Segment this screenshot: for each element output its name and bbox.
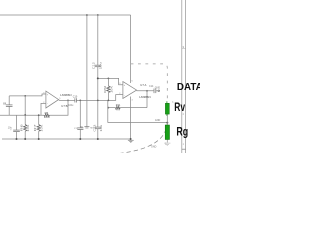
svg-text:220R: 220R [44, 116, 50, 119]
wire R8 to feedback riser [50, 100, 69, 115]
svg-text:R11: R11 [116, 103, 121, 107]
pad Rv green [165, 103, 169, 114]
wire top supply rail [0, 14, 131, 16]
microphone terminal bar on vertical A [84, 126, 89, 128]
node junction A on rail [86, 14, 88, 16]
svg-text:Rv: Rv [174, 101, 185, 114]
node dot R1 bottom-rail [24, 114, 26, 116]
connector tick pin 3 [182, 47, 186, 49]
connector board edge line 1 [181, 0, 183, 153]
svg-text:-: - [124, 94, 125, 97]
svg-text:R8: R8 [45, 111, 49, 115]
node dot output node U7B extension [108, 100, 110, 102]
svg-text:1: 1 [183, 143, 185, 146]
svg-text:U7 A: U7 A [140, 83, 146, 87]
node dot vertical B crossing [97, 100, 99, 102]
svg-text:MIC: MIC [90, 128, 94, 130]
node dot feedback at output [146, 90, 148, 92]
wire vertical B to plus network [98, 78, 123, 84]
resistor R8 gain [44, 114, 50, 117]
wire pad2 to ground [166, 140, 168, 143]
svg-text:GND: GND [155, 86, 161, 89]
node dot rail end junction [130, 138, 132, 140]
wire R9 bottom to minus input U7A [108, 95, 123, 101]
capacitor C14 plates [153, 89, 155, 94]
svg-text:DATA: DATA [177, 82, 200, 93]
svg-text:5: 5 [59, 98, 61, 100]
node dot R11 left tap [108, 107, 110, 109]
ground symbol below pad2 [164, 142, 170, 144]
ground rail [2, 138, 131, 140]
op-amp U7A triangle [123, 82, 137, 99]
svg-text:C10: C10 [73, 96, 78, 99]
svg-text:47K: 47K [116, 107, 121, 111]
op-amp U7B triangle [46, 91, 59, 108]
connector tick bottom [182, 148, 186, 150]
svg-text:10u: 10u [99, 124, 103, 132]
wire noninverting input rail U7B [9, 94, 46, 96]
wire dashed supply to connector [131, 64, 168, 101]
node dot at pad junction [166, 122, 168, 124]
svg-text:U7 B: U7 B [61, 104, 67, 108]
connector board edge line 2 [185, 0, 187, 153]
svg-text:GND: GND [155, 119, 161, 122]
resistor R9 vertical [107, 78, 109, 86]
svg-text:10u: 10u [99, 61, 103, 69]
wire input bottom rail [0, 114, 44, 116]
svg-text:R7: R7 [33, 123, 37, 131]
node dot R1 tap [24, 95, 26, 97]
wire C14 to pin [156, 90, 158, 92]
wire U7B output [59, 99, 75, 102]
node junction B on rail [97, 14, 99, 16]
svg-text:10K: 10K [39, 124, 43, 131]
node dot wire78 at B [97, 77, 99, 79]
svg-text:10K: 10K [26, 124, 30, 131]
wire ground net to pad [108, 122, 168, 124]
node dot C11 branch [79, 100, 81, 102]
svg-text:R6: R6 [20, 123, 24, 131]
node dot rail R1 [24, 138, 26, 140]
svg-text:R9: R9 [103, 85, 107, 93]
capacitor C10 plates [74, 98, 76, 102]
capacitor C12 plates [95, 64, 101, 66]
pad Rv bottom stub [166, 114, 168, 116]
capacitor C8 vertical lead [8, 96, 10, 105]
ground symbol at rail end [128, 139, 134, 141]
wire dashed arc to ground pad [119, 124, 167, 154]
wire vertical B lower segment [97, 67, 99, 127]
svg-text:6: 6 [132, 81, 134, 83]
svg-text:-: - [47, 103, 48, 106]
svg-text:+: + [124, 85, 126, 87]
wire feedback riser to output [146, 91, 148, 108]
svg-text:C14: C14 [149, 85, 154, 88]
svg-text:100u: 100u [68, 105, 74, 107]
wire vertical B upper segment [97, 15, 99, 65]
pad Rg green [165, 125, 169, 140]
node dot rail B [97, 138, 99, 140]
svg-text:Rg: Rg [176, 125, 188, 139]
capacitor C9 vertical lead [16, 115, 18, 130]
node dot rail R2 [38, 138, 40, 140]
node dot rail C11 [79, 138, 81, 140]
resistor R2 vertical [38, 115, 40, 124]
microphone terminal bar 2 [85, 127, 88, 129]
capacitor C13 plates [95, 126, 101, 128]
svg-text:LM386N: LM386N [139, 95, 150, 99]
svg-text:+: + [47, 94, 49, 96]
svg-text:+: + [10, 129, 12, 132]
svg-text:M1: M1 [80, 127, 84, 129]
svg-text:10K: 10K [110, 86, 114, 93]
node dot rail C9 [16, 138, 18, 140]
svg-text:4: 4 [132, 99, 134, 101]
wire vertical A from rail down [86, 15, 88, 126]
wire pad1 to pad2 link [166, 114, 168, 125]
node dot R9 top tap [108, 78, 110, 80]
pad Rv top stub [166, 101, 168, 103]
capacitor C8 plates [6, 104, 13, 106]
capacitor C9 plates [13, 129, 20, 131]
wire vertical B below C13 [97, 129, 99, 139]
svg-text:LM386N: LM386N [60, 93, 71, 97]
resistor R11 feedback [108, 107, 115, 109]
node dot feedback tap [67, 100, 69, 102]
wire vertical C power feed U7A [130, 15, 132, 83]
node pin circle [158, 90, 160, 92]
svg-text:C12: C12 [91, 61, 95, 69]
wire U7A bottom power pin [130, 97, 132, 140]
wire after C10 [76, 99, 108, 101]
wire U7A output [137, 90, 154, 92]
capacitor C11 to ground [79, 100, 81, 128]
wire minus input U7B [41, 103, 46, 115]
resistor R1 vertical [24, 96, 26, 125]
node dot R2 top [38, 114, 40, 116]
svg-text:GND: GND [151, 145, 157, 148]
